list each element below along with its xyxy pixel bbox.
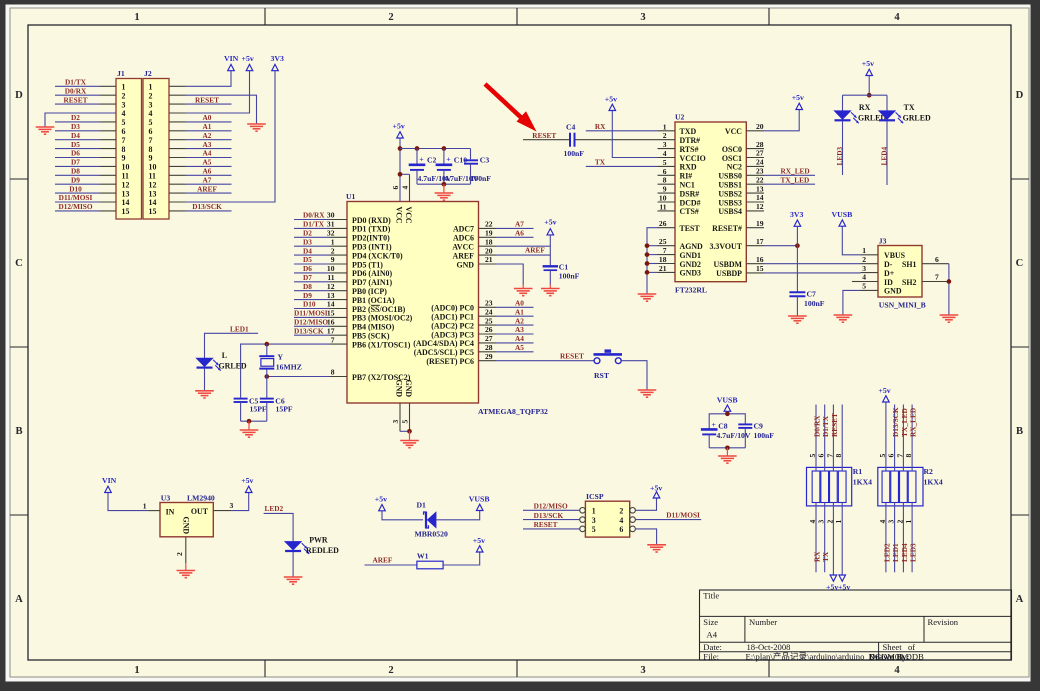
svg-text:PB2 (SS/OC1B): PB2 (SS/OC1B): [352, 305, 406, 314]
svg-text:J2: J2: [144, 69, 152, 78]
svg-text:TX: TX: [904, 103, 915, 112]
svg-text:D12/MISO: D12/MISO: [58, 202, 92, 211]
svg-text:15PF: 15PF: [276, 405, 293, 414]
svg-text:OSC0: OSC0: [722, 145, 742, 154]
svg-text:32: 32: [327, 229, 335, 238]
svg-text:GRLED: GRLED: [219, 362, 247, 371]
U2 pin 25 AGND: [658, 237, 704, 251]
svg-text:5: 5: [401, 420, 410, 424]
ground: [177, 571, 196, 578]
svg-text:22: 22: [756, 175, 764, 184]
U1 pin 23 (ADC0) PC0: [431, 299, 496, 313]
U2 pin 13 USBS2: [718, 184, 764, 198]
svg-text:AVCC: AVCC: [452, 243, 474, 252]
svg-text:+: +: [419, 155, 424, 164]
svg-text:LED3: LED3: [835, 146, 844, 165]
wire C5/C6 to ground: [241, 419, 267, 430]
svg-text:PB4 (MISO): PB4 (MISO): [352, 323, 395, 332]
U2 pin 24 NC2: [727, 158, 764, 172]
svg-text:A3: A3: [515, 325, 524, 334]
power port 3V3: [790, 210, 804, 246]
wire ICSP pin 6 to ground: [635, 529, 656, 544]
U1 pin 32 PD2(INT0) / net D2: [294, 229, 390, 243]
svg-text:RESET#: RESET#: [712, 224, 742, 233]
svg-text:+: +: [446, 155, 451, 164]
svg-text:19: 19: [756, 219, 764, 228]
svg-text:D6: D6: [71, 149, 80, 158]
wire + net label A2: [496, 316, 534, 325]
svg-text:DTR#: DTR#: [680, 136, 701, 145]
svg-text:A6: A6: [203, 167, 212, 176]
power port +5v (down): [838, 575, 850, 592]
svg-text:9: 9: [663, 185, 667, 194]
svg-text:18: 18: [485, 237, 493, 246]
connector J2: [143, 69, 186, 219]
svg-text:D0/RX: D0/RX: [813, 415, 822, 437]
wire LED rail: [843, 94, 888, 96]
svg-text:PD1 (TXD): PD1 (TXD): [352, 225, 391, 234]
svg-text:GND: GND: [395, 380, 404, 398]
U1 pin 21 GND: [456, 255, 496, 269]
svg-text:1: 1: [149, 83, 153, 92]
svg-text:6: 6: [149, 127, 153, 136]
U1 pin 27 (ADC4/SDA) PC4: [413, 334, 496, 348]
wire VIN to U3 pin 1: [108, 493, 148, 511]
svg-text:31: 31: [327, 220, 335, 229]
U2 pin 12 USBS4: [718, 202, 764, 216]
svg-text:D3: D3: [303, 237, 312, 246]
svg-text:D-: D-: [884, 260, 893, 269]
svg-text:10: 10: [149, 163, 157, 172]
ground: [718, 456, 737, 463]
wire U2 VCC pin 20 to +5v: [764, 110, 799, 131]
U1 pin 19 ADC6: [453, 229, 496, 243]
svg-text:100nF: 100nF: [804, 299, 825, 308]
svg-text:9: 9: [331, 255, 335, 264]
wire U3 OUT to +5v: [231, 493, 248, 511]
wires + net labels D0/RX, D1/TX, RESET (R1 top): [813, 405, 843, 472]
svg-text:PD7 (AIN1): PD7 (AIN1): [352, 278, 392, 287]
U2 pin 6 RI#: [658, 167, 693, 181]
U1 pin 9 PD5 (T1) / net D5: [294, 255, 383, 269]
wires R1 pins 2,1 to +5v (down): [833, 503, 842, 576]
wire C8/C9 top rail: [709, 411, 745, 428]
svg-text:5: 5: [862, 282, 866, 291]
switch RST: [594, 349, 623, 380]
U2 pin 14 USBS3: [718, 193, 764, 207]
svg-text:8: 8: [149, 145, 153, 154]
U1 VCC pins 6,4: [391, 137, 410, 202]
svg-text:6: 6: [391, 186, 400, 190]
svg-text:3: 3: [122, 100, 126, 109]
svg-text:D9: D9: [303, 291, 312, 300]
power port +5v: [473, 536, 485, 552]
svg-text:4: 4: [122, 109, 126, 118]
svg-text:D1: D1: [417, 500, 427, 509]
svg-text:DSR#: DSR#: [680, 189, 700, 198]
resistor network R1 1KX4: [807, 454, 873, 524]
svg-text:(ADC4/SDA) PC4: (ADC4/SDA) PC4: [413, 339, 474, 348]
wire U1 pin 21 GND to ground: [496, 264, 523, 289]
wire + net label D10 (J1 pin 13): [55, 184, 100, 193]
U1 pin 13 PB1 (OC1A) / net D9: [294, 291, 395, 305]
wire + net label RX_LED (U2 pin 23): [764, 167, 815, 176]
svg-text:RI#: RI#: [680, 172, 693, 181]
wire J2 pin 1 to VIN: [186, 71, 232, 87]
svg-text:2: 2: [388, 665, 393, 676]
svg-text:FT232RL: FT232RL: [675, 286, 707, 295]
wire + net label A7: [496, 220, 534, 229]
svg-text:GND1: GND1: [680, 251, 702, 260]
svg-text:20: 20: [485, 246, 493, 255]
svg-text:2: 2: [663, 131, 667, 140]
svg-text:D1/TX: D1/TX: [821, 415, 830, 437]
svg-text:1: 1: [122, 83, 126, 92]
U1 GND pins 3,5: [391, 403, 412, 440]
svg-text:LED2: LED2: [265, 504, 284, 513]
wire cap bank bottom rail: [417, 182, 471, 193]
svg-text:PD6 (AIN0): PD6 (AIN0): [352, 269, 392, 278]
U1 pin 25 (ADC2) PC2: [431, 316, 496, 330]
svg-text:GND2: GND2: [680, 260, 702, 269]
svg-text:28: 28: [485, 343, 493, 352]
red annotation arrow: [485, 84, 537, 132]
svg-text:D0/RX: D0/RX: [303, 211, 325, 220]
wire + net label D1/TX (J1 pin 1): [55, 78, 100, 87]
U1 pin 28 (ADC5/SCL) PC5: [414, 343, 496, 357]
capacitor C8 4.7uF/10V: [701, 420, 751, 448]
power port 3V3: [271, 54, 285, 70]
wire + net label D5 (J1 pin 8): [55, 140, 100, 149]
svg-text:AREF: AREF: [525, 246, 545, 255]
wire + net label D2 (J1 pin 5): [55, 113, 100, 122]
ground: [435, 193, 454, 200]
svg-text:(ADC3) PC3: (ADC3) PC3: [431, 330, 474, 339]
U2 pin 8 NC1: [658, 176, 695, 190]
svg-text:+5v: +5v: [241, 476, 253, 485]
power port +5v: [792, 93, 804, 109]
svg-text:D10: D10: [69, 184, 82, 193]
svg-text:A1: A1: [203, 122, 212, 131]
svg-text:(ADC0) PC0: (ADC0) PC0: [431, 304, 474, 313]
svg-text:26: 26: [485, 325, 493, 334]
J3 pin 4 ID stub: [852, 281, 861, 283]
LED LED4 TX GRLED: [879, 95, 931, 185]
svg-text:1KX4: 1KX4: [924, 478, 943, 487]
U2 pin 20 VCC: [725, 122, 764, 136]
wire + net label D8 (J1 pin 11): [55, 167, 100, 176]
svg-text:6: 6: [619, 525, 623, 534]
svg-text:2: 2: [331, 246, 335, 255]
svg-text:16: 16: [327, 318, 335, 327]
svg-text:IN: IN: [166, 507, 175, 516]
wire PB7 to crystal/C6: [264, 369, 329, 398]
svg-text:D6: D6: [303, 264, 312, 273]
U1 pin 29 (RESET) PC6: [426, 352, 496, 366]
svg-text:13: 13: [149, 189, 157, 198]
svg-text:(RESET) PC6: (RESET) PC6: [426, 357, 474, 366]
svg-text:25: 25: [485, 316, 493, 325]
svg-text:USBDP: USBDP: [716, 269, 742, 278]
svg-text:VIN: VIN: [224, 54, 239, 63]
svg-text:A6: A6: [515, 229, 524, 238]
svg-text:PD5 (T1): PD5 (T1): [352, 260, 383, 269]
svg-text:VIN: VIN: [102, 476, 117, 485]
svg-text:10: 10: [122, 163, 130, 172]
svg-text:25: 25: [659, 237, 667, 246]
svg-text:19: 19: [485, 229, 493, 238]
U1 pin 22 ADC7: [453, 220, 496, 234]
LED LED3 RX GRLED: [835, 95, 887, 175]
svg-text:14: 14: [149, 198, 157, 207]
svg-text:PB5 (SCK): PB5 (SCK): [352, 332, 390, 341]
U2 pin 27 OSC1: [722, 149, 764, 163]
power port +5v: [605, 94, 617, 110]
svg-text:C8: C8: [718, 422, 728, 431]
U1 pin 16 PB4 (MISO) / net D12/MISO: [294, 318, 395, 332]
U2 pin 15 USBDP: [716, 264, 764, 278]
svg-text:NC2: NC2: [727, 163, 742, 172]
svg-text:RX: RX: [859, 103, 871, 112]
svg-text:U3: U3: [161, 494, 171, 503]
svg-text:REDLED: REDLED: [306, 546, 339, 555]
svg-text:D1/TX: D1/TX: [65, 78, 87, 87]
svg-text:+5v: +5v: [473, 536, 485, 545]
U1 pin 26 (ADC3) PC3: [431, 325, 496, 339]
svg-text:3.3VOUT: 3.3VOUT: [709, 242, 742, 251]
ground: [514, 289, 533, 296]
svg-text:ADC7: ADC7: [453, 225, 474, 234]
wire W1 to +5v: [443, 552, 480, 565]
J3 pin 2: [861, 255, 879, 264]
svg-text:RESET: RESET: [64, 95, 88, 104]
wire U2 pin 17 3.3VOUT to 3V3 / C7: [764, 243, 800, 248]
svg-text:RESET: RESET: [195, 95, 219, 104]
svg-text:DCD#: DCD#: [680, 198, 701, 207]
svg-text:Drawn By:: Drawn By:: [869, 651, 909, 661]
svg-text:3V3: 3V3: [790, 210, 804, 219]
wire + net label RESET (J2 pin 3): [186, 95, 232, 104]
svg-text:D13/SCK: D13/SCK: [891, 407, 900, 437]
svg-text:23: 23: [485, 299, 493, 308]
svg-text:PB3 (MOSI/OC2): PB3 (MOSI/OC2): [352, 314, 413, 323]
svg-text:A5: A5: [515, 343, 524, 352]
wire + net label A4: [496, 334, 534, 343]
svg-text:Title: Title: [703, 591, 719, 601]
svg-text:+5v: +5v: [393, 122, 405, 131]
svg-text:Size: Size: [703, 617, 718, 627]
power port VUSB: [832, 210, 853, 226]
U2 pin 9 DSR#: [658, 185, 700, 199]
svg-text:12: 12: [149, 180, 157, 189]
svg-text:2: 2: [122, 91, 126, 100]
IC U1 ATMEGA8_TQFP32 body: [346, 192, 548, 416]
LED L1 GRLED: [197, 351, 247, 390]
U2 pin 2 DTR#: [658, 131, 701, 145]
U3 pin 1: [143, 501, 160, 510]
svg-text:1KX4: 1KX4: [853, 478, 872, 487]
svg-text:TX: TX: [821, 551, 830, 562]
svg-text:VUSB: VUSB: [717, 396, 738, 405]
svg-text:11: 11: [327, 273, 334, 282]
U1 pin 2 PD4 (XCK/T0) / net D4: [294, 246, 403, 260]
svg-text:23: 23: [756, 167, 764, 176]
svg-text:NC1: NC1: [680, 181, 695, 190]
svg-text:10: 10: [327, 264, 335, 273]
U2 pin 10 DCD#: [658, 194, 701, 208]
wire + net label D4 (J1 pin 7): [55, 131, 100, 140]
U1 pin 14 PB2 (SS/OC1B) / net D10: [294, 300, 406, 314]
svg-text:13: 13: [122, 189, 130, 198]
svg-text:4: 4: [401, 186, 410, 190]
svg-text:RESET: RESET: [830, 413, 839, 437]
power port +5v: [862, 59, 874, 97]
svg-text:3: 3: [230, 501, 234, 510]
svg-text:A7: A7: [203, 175, 212, 184]
U3 pin 3: [213, 501, 233, 511]
power port VUSB: [717, 396, 738, 414]
svg-text:100nF: 100nF: [564, 149, 585, 158]
svg-text:7: 7: [149, 136, 153, 145]
capacitor C5 15PF: [234, 397, 267, 422]
svg-text:14: 14: [327, 300, 335, 309]
svg-text:11: 11: [149, 172, 157, 181]
capacitor C10 4.7uF/10V: [436, 149, 479, 185]
svg-text:OSC1: OSC1: [722, 154, 742, 163]
wire + net label A6 (J2 pin 11): [186, 167, 232, 176]
svg-text:PB7 (X2/TOSC2): PB7 (X2/TOSC2): [352, 373, 411, 382]
svg-text:14: 14: [756, 193, 764, 202]
wire + net label A5 (J2 pin 10): [186, 158, 232, 167]
svg-text:6: 6: [663, 167, 667, 176]
ground: [400, 441, 419, 448]
svg-text:D2: D2: [71, 113, 80, 122]
U1 pin 20 AREF: [453, 246, 496, 260]
wire net AREF: [496, 246, 550, 256]
wires + net labels D13/SCK, TX_LED, RX_LED (R2 top): [891, 405, 918, 472]
wire + net label D9 (J1 pin 12): [55, 175, 100, 184]
wire + net label A1 (J2 pin 6): [186, 122, 232, 131]
U2 pin 4 VCCIO: [658, 149, 706, 163]
svg-text:USN_MINI_B: USN_MINI_B: [879, 301, 926, 310]
svg-text:3: 3: [663, 140, 667, 149]
LED LED2 PWR REDLED: [285, 536, 339, 577]
wire PB6 to crystal/C5: [241, 342, 330, 398]
J3 pin 1: [861, 246, 879, 255]
svg-text:C: C: [1016, 258, 1024, 269]
svg-text:CTS#: CTS#: [680, 207, 699, 216]
svg-text:8: 8: [663, 176, 667, 185]
svg-text:(ADC2) PC2: (ADC2) PC2: [431, 321, 474, 330]
svg-text:J1: J1: [117, 69, 125, 78]
svg-text:LED3: LED3: [909, 543, 918, 562]
wire + net label D11/MOSI (J1 pin 14): [55, 193, 100, 202]
svg-text:3: 3: [640, 665, 645, 676]
svg-text:USBS0: USBS0: [718, 172, 742, 181]
svg-text:5: 5: [663, 158, 667, 167]
svg-text:1: 1: [663, 122, 667, 131]
svg-text:VCC: VCC: [725, 127, 742, 136]
svg-text:VUSB: VUSB: [469, 494, 490, 503]
svg-text:A3: A3: [203, 140, 212, 149]
wire net RESET through C4 to U2 pin 2 DTR#: [523, 131, 658, 140]
svg-text:D3: D3: [71, 122, 80, 131]
net label LED3: [835, 146, 844, 165]
svg-text:10: 10: [659, 194, 667, 203]
svg-text:15: 15: [122, 207, 130, 216]
svg-text:A0: A0: [203, 113, 212, 122]
svg-text:D8: D8: [303, 282, 312, 291]
wire +5v to D1: [382, 511, 423, 520]
svg-text:+5v: +5v: [650, 483, 662, 492]
svg-text:16MHZ: 16MHZ: [276, 363, 302, 372]
wire + net label A7 (J2 pin 12): [186, 175, 232, 184]
svg-text:J3: J3: [879, 237, 887, 246]
svg-text:18: 18: [659, 255, 667, 264]
svg-text:RX_LED: RX_LED: [909, 408, 918, 437]
svg-text:3: 3: [592, 516, 596, 525]
wire U1 pin 18 AVCC to +5v rail: [496, 245, 550, 247]
power port VIN: [102, 476, 117, 492]
svg-text:A4: A4: [203, 149, 212, 158]
svg-text:GND: GND: [456, 260, 474, 269]
svg-text:26: 26: [659, 219, 667, 228]
svg-text:L: L: [222, 351, 227, 360]
wire + net label A3 (J2 pin 8): [186, 140, 232, 149]
svg-text:TX: TX: [595, 158, 606, 167]
ground: [240, 430, 259, 437]
svg-text:C2: C2: [427, 156, 437, 165]
power port +5v: [375, 495, 387, 511]
wire U2 ground pins to ground: [645, 228, 658, 294]
svg-text:RX_LED: RX_LED: [781, 167, 810, 176]
svg-text:D5: D5: [71, 140, 80, 149]
U1 pin 24 (ADC1) PC1: [431, 307, 496, 321]
svg-text:D0/RX: D0/RX: [65, 86, 87, 95]
wire + net label D3 (J1 pin 6): [55, 122, 100, 131]
svg-text:D8: D8: [71, 167, 80, 176]
svg-text:PB6 (X1/TOSC1): PB6 (X1/TOSC1): [352, 340, 411, 349]
ground: [834, 315, 853, 322]
ground: [647, 545, 666, 552]
U1 pin 10 PD6 (AIN0) / net D6: [294, 264, 392, 278]
svg-text:PD3 (INT1): PD3 (INT1): [352, 243, 392, 252]
svg-text:5: 5: [122, 118, 126, 127]
U1 pin 7 PB6 (X1/TOSC1): [330, 335, 411, 349]
U2 pin 17 3.3VOUT: [709, 237, 764, 251]
U1 pin 11 PD7 (AIN1) / net D7: [294, 273, 392, 287]
svg-text:RESET: RESET: [532, 131, 556, 140]
svg-text:100nF: 100nF: [559, 271, 580, 280]
svg-text:File:: File:: [703, 651, 719, 661]
svg-text:13: 13: [327, 291, 335, 300]
svg-text:Revision: Revision: [928, 617, 959, 627]
svg-text:27: 27: [485, 334, 493, 343]
svg-text:Y: Y: [278, 353, 284, 362]
svg-text:USBS1: USBS1: [718, 181, 742, 190]
svg-text:USBS4: USBS4: [718, 207, 742, 216]
svg-text:15PF: 15PF: [250, 405, 267, 414]
ground: [788, 316, 807, 323]
svg-text:D13/SCK: D13/SCK: [294, 326, 324, 335]
svg-text:8: 8: [331, 368, 335, 377]
svg-text:VUSB: VUSB: [832, 210, 853, 219]
svg-text:12: 12: [756, 202, 764, 211]
svg-text:SH1: SH1: [902, 260, 917, 269]
svg-text:3: 3: [862, 264, 866, 273]
U2 pin 5 RXD: [658, 158, 697, 172]
svg-text:A5: A5: [203, 158, 212, 167]
